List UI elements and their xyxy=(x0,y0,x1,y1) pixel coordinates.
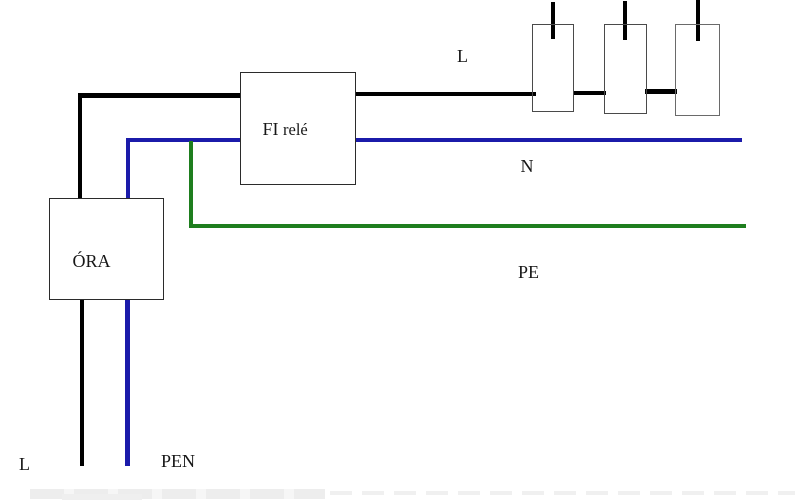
wire L segment breaker S2 to S3 xyxy=(645,89,677,94)
breaker box S3 xyxy=(675,24,721,116)
label PEN xyxy=(161,452,195,470)
supply stub above breaker S1 xyxy=(551,2,555,39)
wire N horizontal left segment to FI relé xyxy=(126,138,241,143)
label FI relé xyxy=(263,120,308,139)
wire L vertical drop to ÓRA xyxy=(78,93,83,198)
supply stub above breaker S3 xyxy=(696,0,700,41)
meter box ÓRA xyxy=(49,198,164,300)
label L (bottom left) xyxy=(19,455,30,473)
supply stub above breaker S2 xyxy=(623,1,627,40)
RCD box FI relé xyxy=(240,72,356,185)
label PE (protective earth) xyxy=(518,263,539,281)
wire L segment breaker S1 to S2 xyxy=(573,91,606,96)
wire L horizontal FI relé to breaker S1 xyxy=(352,92,537,97)
wire PE vertical tap from N xyxy=(189,141,194,228)
wire PE horizontal to right end xyxy=(189,224,747,229)
wire L bottom stub below ÓRA xyxy=(80,299,85,466)
label N (neutral wire) xyxy=(521,157,534,175)
wire N vertical drop to ÓRA xyxy=(126,138,131,199)
wire PEN bottom stub below ÓRA (blue) xyxy=(125,299,130,466)
faint dashed artifact line bottom xyxy=(330,491,795,495)
breaker box S2 xyxy=(604,24,647,114)
label ÓRA xyxy=(73,252,111,270)
faint erased watermark blocks at bottom xyxy=(30,489,325,499)
label L (top, live wire) xyxy=(457,47,468,65)
wire L horizontal from corner to FI relé xyxy=(78,93,241,98)
breaker box S1 xyxy=(532,24,574,112)
wire N horizontal FI relé to right end xyxy=(355,138,742,143)
